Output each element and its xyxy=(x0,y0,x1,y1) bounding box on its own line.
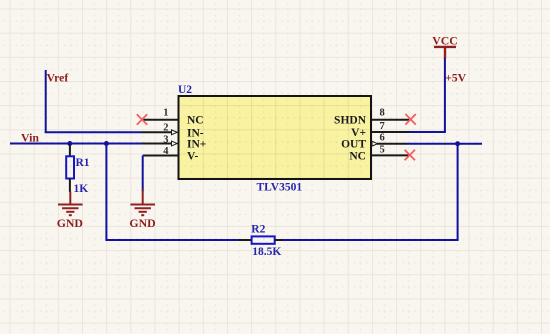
svg-text:7: 7 xyxy=(380,121,385,132)
resistor R1 lead bottom xyxy=(69,179,71,193)
pin 8 SHDN stub xyxy=(371,119,409,121)
VCC bar xyxy=(434,47,456,59)
junction OUT feedback xyxy=(455,141,460,146)
junction R1 tap xyxy=(67,141,72,146)
svg-text:V+: V+ xyxy=(351,127,366,139)
svg-text:3: 3 xyxy=(163,135,168,146)
svg-text:SHDN: SHDN xyxy=(334,115,367,127)
pin 5 NC stub xyxy=(371,154,409,156)
svg-text:Vin: Vin xyxy=(21,131,39,145)
svg-text:NC: NC xyxy=(349,150,366,162)
svg-text:6: 6 xyxy=(380,133,385,144)
svg-text:R2: R2 xyxy=(251,223,265,235)
wire VCC to V+ xyxy=(410,131,446,133)
svg-text:U2: U2 xyxy=(178,84,192,96)
svg-text:18.5K: 18.5K xyxy=(252,246,281,258)
svg-text:VCC: VCC xyxy=(432,34,458,48)
svg-text:1: 1 xyxy=(163,108,168,119)
pin 4 V- stub xyxy=(143,155,179,157)
svg-text:+5V: +5V xyxy=(445,71,467,85)
resistor R2 body xyxy=(252,236,275,243)
wire V- to ground xyxy=(142,156,144,192)
wire Vref horizontal to IN- xyxy=(45,131,142,133)
wire Vref vertical xyxy=(45,70,47,132)
no-ERC marker pin 5 xyxy=(405,150,415,161)
svg-text:V-: V- xyxy=(187,151,198,163)
svg-text:R1: R1 xyxy=(76,157,90,169)
svg-text:NC: NC xyxy=(187,115,204,127)
ground GND2 xyxy=(130,190,155,216)
resistor R1 lead top xyxy=(69,144,71,156)
wire VCC vertical xyxy=(444,58,446,132)
pin 1 NC stub xyxy=(143,119,179,121)
wire feedback bottom right of R2 xyxy=(281,239,459,241)
svg-text:5: 5 xyxy=(380,145,385,156)
pin 3 input triangle xyxy=(172,141,178,146)
pin 2 input triangle xyxy=(172,130,178,135)
svg-text:OUT: OUT xyxy=(341,139,366,151)
wire OUT net xyxy=(407,143,483,145)
wire feedback vertical right xyxy=(457,144,459,240)
svg-text:Vref: Vref xyxy=(47,71,70,85)
junction feedback tap xyxy=(104,141,109,146)
svg-text:1K: 1K xyxy=(74,183,89,195)
resistor R1 body xyxy=(66,156,74,178)
pin 2 IN- stub xyxy=(142,131,173,133)
pin 3 IN+ stub xyxy=(142,143,173,145)
pin 6 OUT stub xyxy=(377,143,407,145)
op-amp U2 body xyxy=(179,96,372,179)
svg-text:GND: GND xyxy=(129,216,155,230)
svg-text:TLV3501: TLV3501 xyxy=(257,182,303,194)
svg-text:8: 8 xyxy=(380,108,385,119)
svg-text:GND: GND xyxy=(57,216,83,230)
wire feedback vertical left xyxy=(105,144,107,241)
wire feedback bottom left of R2 xyxy=(105,239,239,241)
pin 7 V+ stub xyxy=(371,131,410,133)
svg-text:IN-: IN- xyxy=(187,127,204,139)
resistor R2 lead right xyxy=(275,239,282,241)
no-ERC marker pin 8 xyxy=(405,114,415,125)
svg-text:2: 2 xyxy=(163,123,168,134)
wire Vin horizontal to IN+ xyxy=(10,143,142,145)
ground GND1 xyxy=(58,192,83,216)
resistor R2 lead left xyxy=(238,239,252,241)
svg-text:IN+: IN+ xyxy=(187,139,206,151)
pin 6 output triangle xyxy=(372,141,378,146)
no-ERC marker pin 1 xyxy=(137,114,147,125)
svg-text:4: 4 xyxy=(163,146,169,157)
